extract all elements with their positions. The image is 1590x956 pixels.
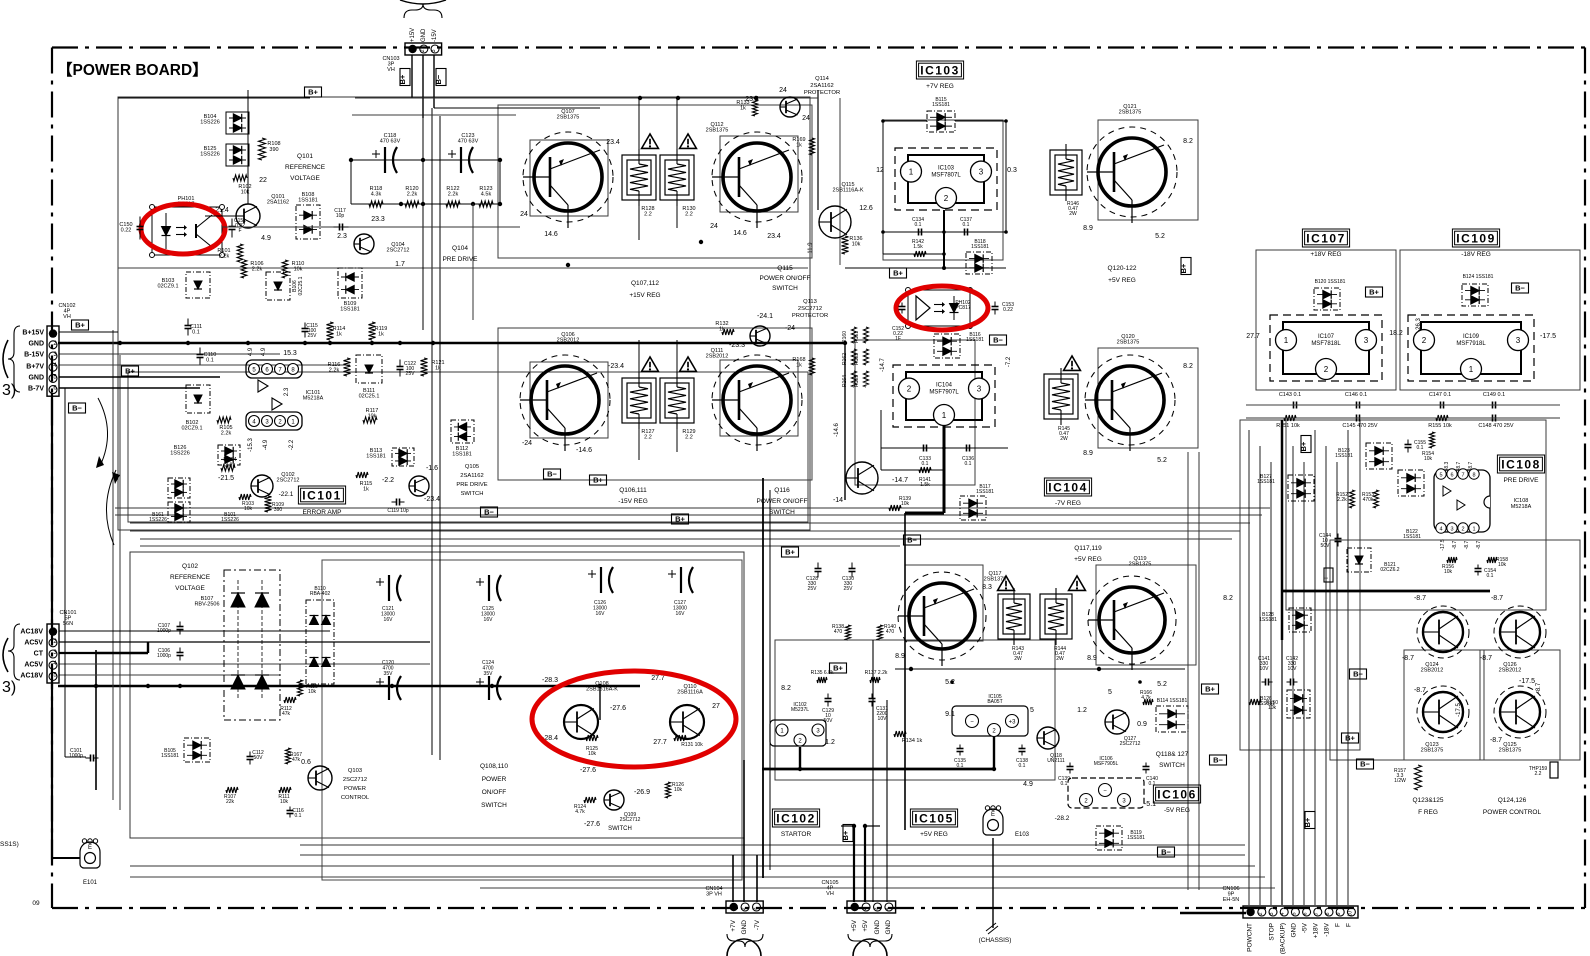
svg-text:-23.4: -23.4 [424,496,440,503]
wire [322,560,742,880]
warning triangle [642,134,659,148]
svg-text:09: 09 [32,900,40,907]
svg-text:SWITCH: SWITCH [772,285,798,292]
wire [844,343,846,500]
label CN105 [821,880,838,897]
svg-text:1: 1 [1472,527,1475,533]
svg-text:2.2k: 2.2k [252,267,263,273]
pin +3 [1006,715,1019,728]
pin 3 [262,416,273,427]
label -14.7 [892,477,908,484]
svg-text:B+: B+ [1369,288,1379,297]
label box IC102 [772,809,819,827]
wire bus [58,684,640,688]
svg-text:10k: 10k [901,501,910,507]
warning triangle [1069,576,1086,590]
title POWER BOARD [57,61,208,79]
svg-text:(BACKUP): (BACKUP) [1280,923,1287,954]
svg-text:1SS181: 1SS181 [1403,534,1421,540]
wire [1246,417,1560,419]
svg-text:C146 0.1: C146 0.1 [1345,392,1367,398]
svg-text:B−: B− [993,336,1003,345]
capacitor C150 [119,217,143,240]
label -23.4 [424,496,440,503]
svg-text:IC107: IC107 [1318,334,1335,340]
capacitor C136 [962,445,974,468]
svg-text:6: 6 [1450,473,1453,479]
label STARTOR [781,831,812,838]
wire [839,98,841,265]
label Q124 [1421,662,1444,674]
wire [733,760,757,902]
svg-text:Q101: Q101 [297,153,313,160]
resistor R122 [446,186,460,207]
capacitor C119 [387,499,409,515]
wire [130,552,744,838]
capacitor C140 [1143,763,1159,788]
svg-text:C119 10p: C119 10p [387,508,409,514]
optocoupler PH102 [906,288,973,329]
resistor R110 [282,260,304,278]
label PH101 [178,196,195,208]
wire [1325,446,1327,905]
svg-text:1SS226: 1SS226 [170,451,190,457]
svg-text:-18V REG: -18V REG [1461,251,1491,258]
svg-text:PC817: PC817 [955,305,971,311]
capacitor C144 [1319,533,1341,549]
wire [1256,250,1396,390]
svg-text:IC102: IC102 [776,811,816,825]
resistor block R129 [660,372,696,441]
label 15.3 [283,350,297,357]
label +7V REG [926,83,954,90]
wire [1198,452,1200,890]
pin label B-7V [28,386,44,393]
wire [639,340,677,460]
svg-text:E103: E103 [1015,832,1030,838]
capacitor C127 [668,567,693,617]
svg-text:Q118& 127: Q118& 127 [1156,751,1189,758]
wire [1098,348,1198,448]
label Q112 [706,122,729,134]
svg-text:2: 2 [420,49,426,52]
svg-text:2W: 2W [1069,211,1077,217]
svg-text:1SS181: 1SS181 [976,489,994,495]
svg-text:F: F [1335,923,1342,927]
pin 7 [1458,469,1468,479]
label Q102 ref [170,563,211,592]
svg-text:25V: 25V [406,371,416,377]
diode up1 [231,593,245,607]
svg-text:IC103: IC103 [938,166,955,172]
wire [115,514,1262,516]
resistor R123 [479,186,493,207]
pin label GND [874,920,881,935]
resistor R103 [239,494,254,512]
label Q103 [341,768,370,801]
svg-text:10k: 10k [244,506,253,512]
svg-text:M5218A: M5218A [303,396,324,402]
svg-text:4.9: 4.9 [261,347,267,356]
svg-text:Q102: Q102 [182,563,198,570]
diode dn1 [231,675,245,689]
resistor R166 [1140,690,1153,705]
svg-text:+5V REG: +5V REG [1108,277,1136,284]
svg-text:2SA1162: 2SA1162 [460,473,483,479]
node B- [544,469,561,479]
svg-text:B-7V: B-7V [28,386,44,393]
node B+ vert [1303,812,1315,829]
svg-text:02CZ6.2: 02CZ6.2 [1380,567,1399,573]
capacitor C138 [1016,745,1028,770]
svg-text:R161: R161 [854,331,860,343]
label box IC101 [298,486,345,504]
diode B105 [161,738,210,762]
svg-text:2.2: 2.2 [685,435,693,441]
wire [355,97,818,99]
label 4.9 [1023,781,1033,788]
capacitor C153 [992,302,1015,315]
svg-text:02CZ9.1: 02CZ9.1 [157,284,178,290]
wire [1303,462,1305,905]
pin − [1099,784,1112,797]
capacitor C149 [1483,392,1505,409]
svg-text:IC109: IC109 [1456,231,1496,245]
label -18V REG [1461,251,1491,258]
transistor Q116b [846,462,878,494]
resistor R119 [369,322,388,340]
resistor block R146 [1050,144,1082,217]
capacitor C146 [1345,392,1367,409]
svg-text:-5.1: -5.1 [1144,801,1156,808]
svg-text:35V: 35V [384,671,394,677]
svg-text:-27.6: -27.6 [610,705,626,712]
svg-text:+5V: +5V [851,919,858,931]
pin label CT [34,651,44,658]
svg-text:2.2k: 2.2k [407,192,418,198]
svg-text:12: 12 [876,167,884,174]
resistor R169 [792,137,814,155]
diode B113 [366,448,414,466]
svg-text:IC107: IC107 [1306,231,1346,245]
svg-text:1: 1 [1469,365,1474,374]
svg-text:GND: GND [1291,923,1298,938]
regulator IC104 [893,365,995,427]
svg-text:2.2k: 2.2k [1337,497,1347,503]
svg-text:1SS181: 1SS181 [452,452,472,458]
svg-text:-14.6: -14.6 [576,447,592,454]
resistor R132 [715,321,734,335]
zener B111 [356,355,382,400]
label 24 [520,211,528,218]
warning triangle [680,357,697,371]
connector CN105 [847,901,896,913]
resistor R142 [883,210,946,270]
svg-text:R135 6.8k: R135 6.8k [811,670,834,676]
svg-text:ERROR AMP: ERROR AMP [302,509,341,516]
svg-text:6: 6 [1303,912,1309,915]
pin 3 [1447,523,1457,533]
wire [300,844,1245,846]
label IC105 sub [987,694,1002,705]
svg-text:E: E [88,845,92,851]
op-amp tri [272,398,282,410]
wire [775,640,1055,780]
svg-text:3P VH: 3P VH [706,892,722,898]
svg-text:GND: GND [885,920,892,935]
pin 4 [249,416,260,427]
svg-text:16V: 16V [596,611,606,617]
svg-text:PROTECTOR: PROTECTOR [792,313,828,319]
svg-text:7: 7 [1461,473,1464,479]
svg-text:-24.1: -24.1 [757,313,773,320]
svg-text:-8.7: -8.7 [1402,655,1414,662]
circle under CN104 [727,939,761,956]
wire [1404,650,1484,760]
transistor Q106 [520,355,610,451]
zener B102 [181,385,210,432]
label box IC109 [1452,229,1499,247]
svg-text:B−: B− [907,536,917,545]
svg-text:1.2: 1.2 [1077,707,1087,714]
svg-text:1.5k: 1.5k [920,482,930,488]
label Q110 [677,684,703,696]
pin 1 [776,724,788,736]
capacitor C106 [157,648,183,661]
pin label GND [741,920,748,935]
svg-text:23.4: 23.4 [745,96,759,103]
capacitor C152 [892,303,905,343]
wire [439,116,441,760]
capacitor C137 [960,217,972,236]
svg-text:18.2: 18.2 [1389,330,1403,337]
node B+ cn103 [398,69,410,86]
svg-text:B+: B+ [893,269,903,278]
svg-text:-1.6: -1.6 [426,465,438,472]
label -28.4 [542,735,558,742]
svg-text:E101: E101 [83,880,98,886]
wire [530,362,608,438]
label -17.5 [1456,703,1462,717]
label -8.7 [1476,540,1482,549]
label Q126 [1499,662,1522,674]
label -8.7 [1414,595,1426,602]
svg-text:9.1: 9.1 [945,711,955,718]
label -8.7 [1490,737,1502,744]
label -27.6 [610,705,626,712]
svg-text:AC18V: AC18V [20,629,43,636]
wire [1281,430,1283,905]
svg-text:B+: B+ [125,367,135,376]
label 14.6 [544,231,558,238]
svg-text:8.3: 8.3 [982,584,992,591]
wire [762,478,764,878]
svg-text:-14.7: -14.7 [892,477,908,484]
svg-text:0.22: 0.22 [1003,307,1013,313]
transistor Q103 [308,766,332,790]
svg-text:F REG: F REG [1418,809,1438,816]
svg-text:2SC2712: 2SC2712 [1120,741,1141,747]
wire [51,393,53,860]
svg-text:27.7: 27.7 [653,739,667,746]
wire [115,507,1270,509]
label GND [421,28,427,42]
svg-text:F: F [238,228,241,234]
transistor Q115 [819,206,851,238]
capacitor C129 [822,694,834,725]
transistor Q123 [1417,686,1469,738]
resistor block R130 [660,149,696,218]
svg-text:0.1: 0.1 [965,461,972,467]
svg-text:3: 3 [1364,336,1369,345]
label Q106 111 [618,487,648,505]
svg-text:2: 2 [862,907,868,910]
capacitor C145 [1342,415,1377,430]
diode B117 [960,484,994,520]
svg-text:0.1: 0.1 [1061,781,1068,787]
svg-text:CONTROL: CONTROL [341,795,370,801]
label (3) [2,382,16,399]
zener B106 [266,272,304,300]
label Q120-122 [1108,265,1137,284]
zener B103 [157,272,210,298]
resistor R157 [1394,765,1421,790]
svg-text:+5V REG: +5V REG [920,831,948,838]
resistor block R127 [622,372,656,441]
svg-text:2SB1375: 2SB1375 [706,128,729,134]
resistor block R143 [998,588,1030,662]
node B- [1158,847,1175,857]
wire [95,650,97,790]
svg-text:2SC2712: 2SC2712 [343,777,367,783]
wire [498,328,812,480]
svg-text:-26.9: -26.9 [634,789,650,796]
svg-text:2.2k: 2.2k [225,463,236,469]
resistor R118 [369,186,383,207]
svg-text:0.22: 0.22 [121,228,132,234]
svg-text:1SS181: 1SS181 [161,753,179,759]
label B110 [310,586,331,597]
label 23.4 [606,139,620,146]
svg-text:2SB1116A-K: 2SB1116A-K [833,188,864,194]
rect B110 [306,600,334,684]
pin 1 [288,416,299,427]
wire [1281,420,1284,640]
connector CN103 [405,43,442,55]
wire [96,642,148,653]
svg-text:-14: -14 [833,497,843,504]
label -2.2 [289,439,295,450]
pin label POWCNT [1247,923,1254,952]
wire [1096,565,1196,665]
brace paren [3,340,8,378]
resistor R133 [736,100,757,116]
label ERROR AMP [302,509,341,516]
svg-text:3: 3 [1516,336,1521,345]
wire [1286,420,1546,610]
capacitor C110 [197,348,217,365]
capacitor C124 [476,660,501,700]
label -7.2 [1006,356,1012,367]
svg-text:−: − [970,720,974,726]
svg-text:0.1: 0.1 [915,222,922,228]
label -15V [432,29,438,42]
transistor Q112 [712,132,802,228]
wire [1270,462,1272,905]
pin label F [1335,923,1342,927]
label Q108 [586,681,618,693]
wire [817,90,819,210]
svg-text:-17.5: -17.5 [1456,703,1462,717]
svg-text:2: 2 [1422,336,1427,345]
pin label AC18V [20,629,43,636]
label 27 [712,703,720,710]
resistor R155 [1428,415,1452,429]
svg-text:IC108: IC108 [1501,457,1541,471]
label 8.2 [1183,363,1193,370]
label -8.7 [1491,595,1503,602]
resistor R137 [865,670,888,683]
wire [349,98,502,330]
svg-text:POWER ON/OFF: POWER ON/OFF [760,275,811,282]
label Q118 127 [1156,751,1189,769]
wire GND CT [59,652,96,654]
svg-text:R163: R163 [854,353,860,365]
svg-text:2SB1375: 2SB1375 [1117,340,1140,346]
svg-text:B+: B+ [1205,685,1215,694]
svg-text:-8.3: -8.3 [1444,461,1450,470]
pin 8 [288,364,299,375]
svg-text:GND: GND [421,28,427,42]
label -26.9 [634,789,650,796]
svg-text:SWITCH: SWITCH [1159,762,1185,769]
svg-text:-21.5: -21.5 [218,475,234,482]
wire [59,630,330,632]
svg-text:Q103: Q103 [348,768,362,774]
svg-text:IC104: IC104 [1048,480,1088,494]
svg-text:-15.3: -15.3 [248,438,254,452]
svg-text:+18V REG: +18V REG [1310,251,1341,258]
label 5.2 [945,679,955,686]
svg-text:1k: 1k [719,327,725,333]
op-amp tri [1457,500,1465,510]
annotation ellipse 1 [141,204,225,254]
resistor R111 [278,787,291,805]
svg-text:VOLTAGE: VOLTAGE [290,175,320,182]
label -24 [785,325,795,332]
capacitor C141 [1258,656,1272,686]
wire [352,114,516,116]
svg-text:B+: B+ [785,548,795,557]
svg-text:-23.4: -23.4 [608,363,624,370]
diode b110b [310,658,331,667]
label 12.6 [859,205,873,212]
svg-text:0.6: 0.6 [301,759,311,766]
diode b110a [310,616,331,625]
wire [530,140,608,216]
resistor R154 [1422,432,1434,462]
svg-text:+5V REG: +5V REG [1074,556,1102,563]
svg-text:-8.7: -8.7 [1491,595,1503,602]
pin label GND [28,341,44,348]
svg-text:10k: 10k [1444,569,1453,575]
label 22 [259,177,267,184]
capacitor C111 [185,319,203,336]
optocoupler PH101 [150,205,225,258]
pin 2 [794,734,806,746]
svg-text:-28.2: -28.2 [1055,815,1070,822]
label Q121 [1119,104,1142,116]
